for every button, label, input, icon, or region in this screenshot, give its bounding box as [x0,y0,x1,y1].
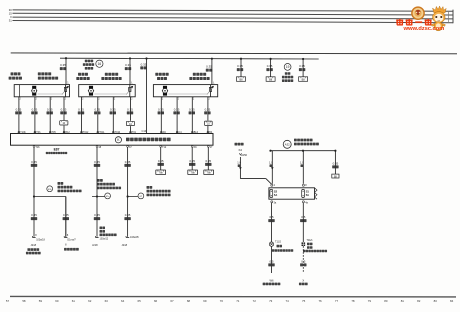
svg-text:57: 57 [6,299,10,303]
svg-text:0.35: 0.35 [206,65,212,69]
svg-text:64: 64 [121,299,125,303]
svg-text:0.5: 0.5 [269,215,273,219]
svg-text:0.35: 0.35 [94,160,100,164]
svg-text:79: 79 [368,299,372,303]
svg-text:67: 67 [170,299,174,303]
svg-text:0.35: 0.35 [60,63,66,67]
svg-text:77: 77 [335,299,339,303]
svg-text:0.5: 0.5 [301,215,305,219]
svg-text:0.35: 0.35 [127,107,133,111]
svg-text:0.35: 0.35 [205,159,211,163]
svg-text:0.35: 0.35 [237,64,243,68]
svg-text:0.35: 0.35 [47,107,53,111]
svg-text:65: 65 [137,299,141,303]
svg-text:X: X [10,15,12,19]
svg-text:T16: T16 [35,146,40,149]
svg-text:J218: J218 [92,243,98,247]
svg-text:0.35: 0.35 [158,159,164,163]
svg-text:73: 73 [269,299,273,303]
svg-text:78: 78 [351,299,355,303]
svg-text:0.35: 0.35 [94,107,100,111]
svg-text:D1ma/7: D1ma/7 [67,239,76,242]
svg-text:74: 74 [286,299,290,303]
svg-text:81: 81 [401,299,405,303]
svg-text:75: 75 [302,299,306,303]
svg-text:19: 19 [286,65,290,69]
svg-text:30: 30 [9,8,12,12]
svg-text:72: 72 [253,299,257,303]
svg-text:68: 68 [187,299,191,303]
svg-text:0.35: 0.35 [158,107,164,111]
svg-text:0.5: 0.5 [269,259,273,263]
svg-text:0.35: 0.35 [174,107,180,111]
svg-text:0.35: 0.35 [141,62,147,66]
svg-text:T4b/1: T4b/1 [307,239,314,242]
svg-text:80: 80 [384,299,388,303]
svg-text:70: 70 [220,299,224,303]
svg-text:103a/12: 103a/12 [100,238,109,241]
svg-text:0.35: 0.35 [189,107,195,111]
svg-text:0.35: 0.35 [61,107,67,111]
svg-text:76: 76 [318,299,322,303]
svg-text:84: 84 [450,299,454,303]
svg-text:82: 82 [417,299,421,303]
svg-text:63: 63 [105,299,109,303]
svg-text:103a/18: 103a/18 [36,239,45,242]
svg-text:T8b: T8b [207,172,212,175]
svg-text:X: X [302,278,304,282]
svg-text:0.35: 0.35 [63,213,69,217]
svg-text:T12: T12 [162,146,167,149]
svg-text:0.35: 0.35 [205,107,211,111]
svg-text:1.0: 1.0 [269,161,273,165]
svg-text:T8b: T8b [159,172,164,175]
svg-text:59: 59 [39,299,43,303]
svg-text:16: 16 [98,62,102,66]
svg-text:W6: W6 [269,278,274,282]
svg-text:www.dzsc.com: www.dzsc.com [403,26,445,32]
svg-text:0.35: 0.35 [31,160,37,164]
svg-text:J218: J218 [122,243,128,247]
svg-text:0.5: 0.5 [301,259,305,263]
svg-text:60: 60 [55,299,59,303]
svg-text:T11/2: T11/2 [275,241,282,244]
svg-text:0.35: 0.35 [78,107,84,111]
svg-text:1.0: 1.0 [237,161,241,165]
svg-text:69: 69 [203,299,207,303]
svg-text:0.35: 0.35 [110,107,116,111]
svg-text:0.35: 0.35 [94,213,100,217]
svg-text:0.35: 0.35 [16,107,22,111]
svg-text:J218: J218 [30,243,36,247]
svg-text:62: 62 [88,299,92,303]
svg-text:0.35: 0.35 [299,64,305,68]
svg-text:15: 15 [9,11,12,15]
svg-text:C14: C14 [142,129,147,133]
svg-text:1.0: 1.0 [300,161,304,165]
svg-text:5A: 5A [274,193,277,197]
svg-text:0.35: 0.35 [125,63,131,67]
svg-text:A32: A32 [285,143,290,147]
svg-text:0.35: 0.35 [31,213,37,217]
svg-text:0.35: 0.35 [267,64,273,68]
svg-text:0.35: 0.35 [125,160,131,164]
svg-text:61: 61 [72,299,76,303]
svg-text:83: 83 [434,299,438,303]
svg-text:E87: E87 [54,147,60,151]
svg-text:66: 66 [154,299,158,303]
svg-text:0.35: 0.35 [125,213,131,217]
svg-text:31: 31 [9,19,12,23]
svg-text:T8b: T8b [191,172,196,175]
svg-text:K2: K2 [239,148,243,152]
svg-text:0.35: 0.35 [32,107,38,111]
svg-text:58: 58 [22,299,26,303]
svg-text:71: 71 [236,299,240,303]
svg-text:103a/05: 103a/05 [130,236,139,239]
svg-text:5A: 5A [306,193,309,197]
svg-text:0.35: 0.35 [189,159,195,163]
svg-text:0.35: 0.35 [333,161,339,165]
